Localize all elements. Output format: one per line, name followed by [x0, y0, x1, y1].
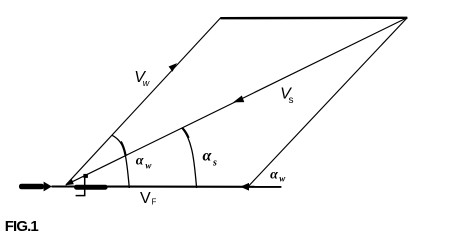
svg-text:s: s: [289, 95, 294, 106]
label V_F: [140, 190, 157, 207]
vector V_F baseline (horizontal): [52, 185, 282, 187]
angle arc alpha_s (large, from V_F up to V_S): [182, 128, 196, 188]
svg-text:FIG.1: FIG.1: [5, 218, 39, 235]
arrowhead of V_S at origin O: [65, 179, 74, 185]
svg-text:α: α: [270, 167, 278, 182]
thick input arrow (left bar with arrowhead): [19, 182, 52, 192]
wire: top side of parallelogram A-B: [221, 17, 408, 20]
label V_S: [280, 86, 293, 106]
angle arc alpha_w (small, from V_F up to V_W): [112, 135, 130, 188]
svg-text:α: α: [203, 147, 213, 164]
vector V_S line O-B: [66, 18, 407, 185]
label alpha_w (right angle at C): [270, 167, 286, 183]
right-angle / perpendicular mark below V_S: [76, 174, 88, 196]
label alpha_s (middle angle): [203, 147, 218, 168]
arrowhead at C pointing left on baseline: [240, 183, 249, 191]
svg-text:w: w: [143, 78, 150, 88]
svg-text:α: α: [136, 154, 144, 169]
thick bar segment on V_F right of origin: [74, 185, 108, 190]
svg-text:w: w: [279, 173, 286, 183]
arrowhead on V_W (mid, pointing up-right): [169, 63, 177, 72]
svg-text:s: s: [212, 158, 217, 169]
label alpha_w (left angle): [136, 154, 153, 171]
label V_W: [134, 69, 150, 88]
label FIG.1: [5, 218, 39, 235]
svg-text:V: V: [140, 190, 151, 207]
svg-text:F: F: [152, 197, 157, 206]
vector V_W line O-A: [66, 18, 221, 185]
wire: right side of parallelogram B-C: [249, 18, 407, 186]
svg-text:w: w: [145, 160, 152, 170]
arrowhead on V_S (mid, pointing down-left toward O): [233, 96, 244, 103]
